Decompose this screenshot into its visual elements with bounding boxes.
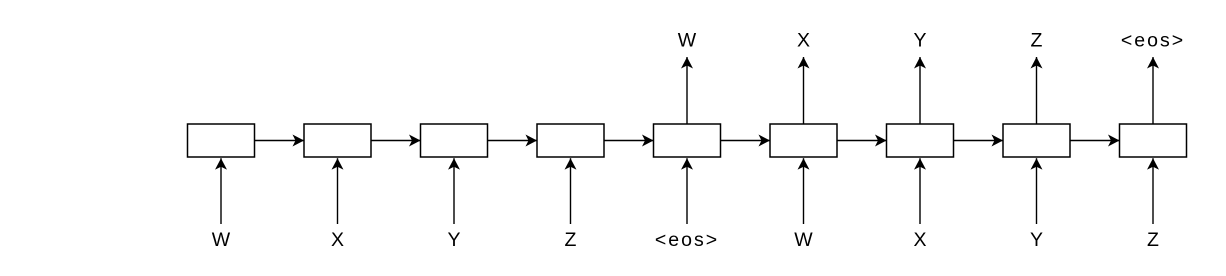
wire cell1 to cell2 — [255, 140, 305, 142]
RNN cell 5 — [654, 124, 721, 157]
wire cell2 to cell3 — [371, 140, 421, 142]
svg-text:Y: Y — [1030, 229, 1043, 251]
RNN cell 2 — [304, 124, 371, 157]
output arrow cell8 to Z — [1036, 57, 1038, 124]
input arrow Z to cell4 — [570, 158, 572, 224]
RNN cell 6 — [770, 124, 837, 157]
svg-text:Z: Z — [565, 229, 577, 251]
RNN cell 1 — [188, 124, 255, 157]
svg-text:W: W — [212, 229, 231, 251]
svg-text:Z: Z — [1031, 30, 1043, 52]
input arrow W to cell1 — [220, 158, 222, 224]
input arrow Z to cell9 — [1152, 158, 1154, 224]
svg-text:X: X — [331, 229, 344, 251]
RNN cell 4 — [537, 124, 604, 157]
svg-text:<eos>: <eos> — [1121, 30, 1185, 52]
svg-text:Y: Y — [913, 30, 926, 52]
output arrow cell5 to W — [686, 57, 688, 124]
svg-text:<eos>: <eos> — [655, 229, 719, 251]
input arrow Y to cell3 — [453, 158, 455, 224]
input arrow eos to cell5 — [686, 158, 688, 224]
output arrow cell7 to Y — [919, 57, 921, 124]
input arrow W to cell6 — [803, 158, 805, 224]
RNN cell 3 — [421, 124, 488, 157]
RNN cell 8 — [1003, 124, 1070, 157]
svg-text:X: X — [797, 30, 810, 52]
svg-text:Z: Z — [1147, 229, 1159, 251]
input arrow X to cell2 — [337, 158, 339, 224]
wire cell7 to cell8 — [954, 140, 1004, 142]
wire cell3 to cell4 — [488, 140, 538, 142]
svg-text:X: X — [913, 229, 926, 251]
input arrow X to cell7 — [919, 158, 921, 224]
output arrow cell9 to eos — [1152, 57, 1154, 124]
wire cell5 to cell6 — [721, 140, 771, 142]
svg-text:W: W — [794, 229, 813, 251]
RNN cell 9 — [1120, 124, 1187, 157]
wire cell4 to cell5 — [604, 140, 654, 142]
output arrow cell6 to X — [803, 57, 805, 124]
input arrow Y to cell8 — [1036, 158, 1038, 224]
svg-text:Y: Y — [447, 229, 460, 251]
RNN cell 7 — [887, 124, 954, 157]
svg-text:W: W — [678, 30, 697, 52]
wire cell6 to cell7 — [837, 140, 887, 142]
wire cell8 to cell9 — [1070, 140, 1120, 142]
